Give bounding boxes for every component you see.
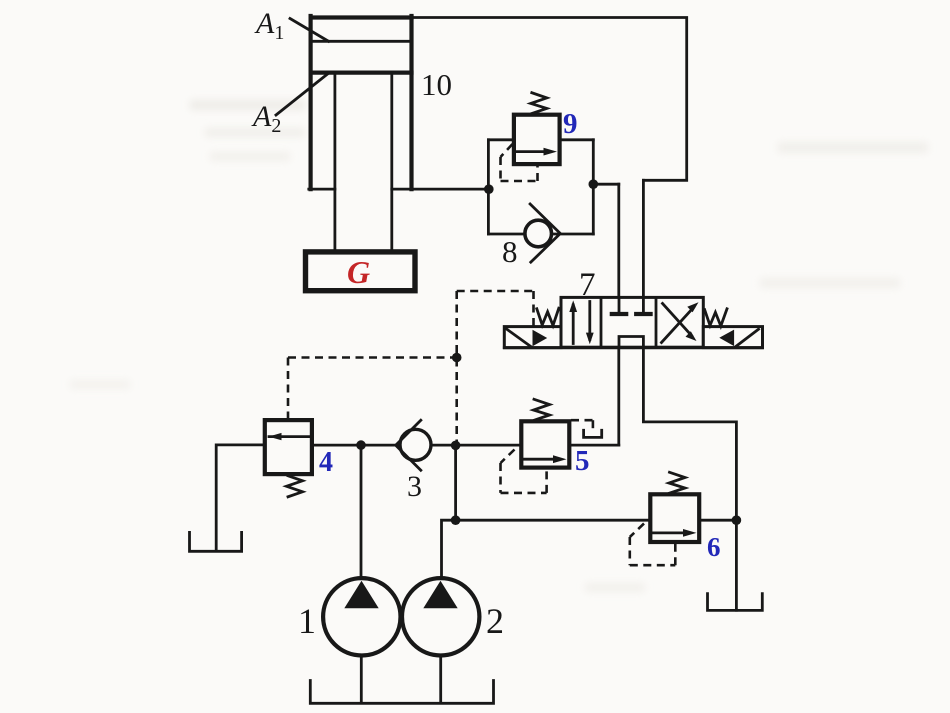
wire B-line vertical into valve 7 [642, 180, 645, 297]
relief valve 9 [501, 93, 578, 181]
wire valve4 left to tank [216, 445, 265, 551]
tank right [708, 594, 763, 611]
svg-text:6: 6 [707, 532, 721, 562]
svg-text:3: 3 [407, 470, 422, 503]
pilot line valve 9 [501, 144, 538, 181]
wire cylinder-top to valve7 B-line [412, 18, 687, 181]
wire junction riser [454, 445, 457, 520]
wire P-line valve7 to valve5 [617, 347, 620, 445]
drain line valve 5 [571, 420, 602, 437]
wire cylinder rod-side port [412, 188, 489, 191]
load G [306, 252, 416, 291]
spring 4 [287, 476, 303, 497]
spring 9 [531, 93, 547, 114]
wire A-line: block to valve 7 [593, 183, 619, 186]
node dots [356, 179, 741, 525]
center cell blocked port stubs [618, 297, 621, 312]
check valve 3 [396, 420, 431, 503]
left solenoid [504, 327, 561, 348]
pilot line valve 5 [501, 450, 547, 493]
relief valve 5 [501, 399, 602, 493]
spring 6 [669, 472, 685, 493]
svg-text:2: 2 [486, 601, 504, 641]
directional valve 7 [504, 267, 762, 348]
check valve 8 [502, 204, 560, 269]
svg-text:7: 7 [579, 267, 596, 303]
wire valve6 right to T-line [699, 519, 736, 522]
wire pump outlets to tank [360, 655, 363, 703]
svg-text:1: 1 [298, 601, 316, 641]
wire pump1 riser [360, 445, 363, 579]
relief valve 6 [630, 472, 721, 565]
center cell bottom U [619, 337, 643, 348]
left cell up arrow [572, 305, 575, 344]
right cell crossed arrows [662, 308, 694, 343]
pump 1 [298, 578, 400, 655]
spring 5 [534, 399, 550, 420]
wire T-line valve7 to tank [643, 347, 736, 610]
svg-text:A1: A1 [254, 7, 284, 44]
pilot dashed network from solenoid to valves 4/5 area [288, 291, 534, 445]
main box [561, 297, 703, 347]
svg-text:4: 4 [319, 447, 333, 478]
tank left [190, 532, 242, 551]
relief valve 4 [265, 420, 333, 497]
label A1 [254, 7, 329, 44]
wire pump pressure line [312, 444, 521, 447]
tank bottom [310, 681, 493, 704]
wire pump2 line [442, 520, 651, 579]
svg-text:G: G [347, 254, 370, 290]
left spring [537, 308, 559, 325]
cylinder 10 [309, 16, 412, 252]
right spring [705, 309, 727, 326]
pilot line valve 6 [630, 524, 676, 566]
label A2 [251, 74, 328, 137]
bypass block rails (valves 8/9) [488, 140, 593, 234]
right solenoid [703, 327, 762, 348]
svg-text:9: 9 [563, 108, 578, 140]
svg-text:10: 10 [421, 67, 452, 102]
svg-text:5: 5 [575, 445, 590, 477]
svg-text:8: 8 [502, 234, 518, 269]
pump 2 [402, 578, 504, 655]
left cell down arrow [588, 302, 591, 340]
